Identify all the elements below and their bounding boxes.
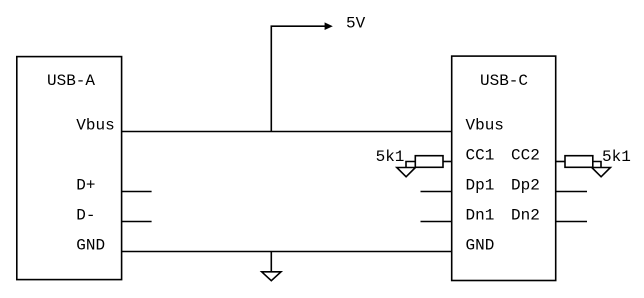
svg-text:D-: D- <box>76 207 95 225</box>
resistor R1 5k1 body (CC1 pull-down) <box>415 156 443 168</box>
wire 5V riser from Vbus net <box>271 26 326 131</box>
svg-text:Vbus: Vbus <box>76 117 114 135</box>
wire R1 right lead to CC1 pin <box>443 161 452 163</box>
wire Dn2 stub (USB-C right) <box>556 221 587 223</box>
ground (below R2) <box>592 168 611 177</box>
svg-text:Dn2: Dn2 <box>511 207 540 225</box>
svg-text:Dn1: Dn1 <box>466 207 495 225</box>
wire Dn1 stub (USB-C left) <box>421 221 452 223</box>
svg-text:GND: GND <box>76 237 105 255</box>
connector J2 USB-C box <box>452 56 556 280</box>
wire R2 left lead to CC2 pin <box>556 161 565 163</box>
svg-text:CC1: CC1 <box>466 147 495 165</box>
ground (below R1) <box>397 168 416 177</box>
svg-text:Dp2: Dp2 <box>511 177 540 195</box>
ground (middle, on GND net) <box>262 272 281 281</box>
svg-text:CC2: CC2 <box>511 147 540 165</box>
svg-text:5k1: 5k1 <box>376 148 405 166</box>
svg-text:D+: D+ <box>76 177 95 195</box>
resistor R2 5k1 body (CC2 pull-down) <box>565 156 593 168</box>
svg-text:USB-A: USB-A <box>47 72 95 90</box>
svg-text:USB-C: USB-C <box>480 72 528 90</box>
wire D- stub (USB-A) <box>122 221 152 223</box>
wire R1 left lead to ground <box>406 162 415 168</box>
wire D+ stub (USB-A) <box>122 191 152 193</box>
svg-text:Vbus: Vbus <box>466 117 504 135</box>
wire Dp1 stub (USB-C left) <box>421 191 452 193</box>
svg-text:5V: 5V <box>346 15 366 33</box>
wire Vbus net (USB-A Vbus to USB-C Vbus) <box>122 131 452 133</box>
wire GND net (USB-A GND to USB-C GND) <box>122 251 452 253</box>
svg-text:5k1: 5k1 <box>602 148 631 166</box>
power arrow 5V (filled head) <box>325 22 333 30</box>
svg-text:GND: GND <box>466 237 495 255</box>
connector J1 USB-A box <box>17 57 122 280</box>
svg-text:Dp1: Dp1 <box>466 177 495 195</box>
wire GND stem to middle ground <box>270 252 272 272</box>
wire R2 right lead to ground <box>593 162 601 168</box>
wire Dp2 stub (USB-C right) <box>556 191 587 193</box>
